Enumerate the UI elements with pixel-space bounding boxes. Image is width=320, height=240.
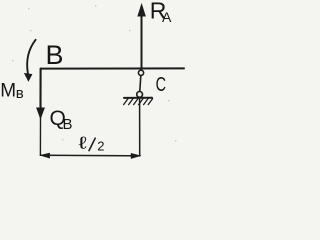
svg-text:2: 2 [97,139,104,154]
ground hatching [124,99,153,105]
paper background [0,0,189,168]
ground line of support [124,97,152,99]
link between hinges [140,75,141,91]
pin circle at C (hinge on beam) [138,70,143,75]
reaction arrow R_A (vertical shaft) [141,14,143,68]
moment arrow M_B (curved arc) [27,40,35,74]
scan speckles [12,5,176,141]
force arrow Q_B (arrowhead, downward) [37,108,44,118]
reaction arrow R_A arrowhead (upward) [138,5,145,17]
dimension arrowhead right [131,154,140,159]
svg-text:M: M [0,81,16,102]
svg-text:B: B [46,40,64,70]
svg-text:ℓ: ℓ [77,133,86,153]
wire: dimension extension line below Q_B arrow [39,117,41,155]
svg-text:B: B [63,116,73,133]
wire: vertical extension line below support [139,98,141,156]
beam B–C (horizontal member) [41,67,184,69]
dimension arrowhead left [41,153,50,158]
svg-text:в: в [16,85,24,102]
svg-text:A: A [162,9,172,25]
svg-text:C: C [156,73,166,96]
support circle (lower hinge) [137,92,143,98]
dimension line l/2 [41,154,140,157]
moment arrow M_B arrowhead [25,73,32,81]
wire: shaft of force Q_B at B [39,69,41,109]
